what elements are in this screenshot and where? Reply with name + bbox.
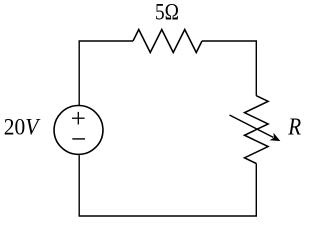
wire from resistor 5ohm to top-right corner down to rheostat R: [202, 41, 256, 96]
wire from bottom of rheostat R to bottom-right corner, bottom-left corner and up to source V1: [79, 155, 256, 216]
svg-text:5Ω: 5Ω: [155, 0, 179, 26]
wire from top of source V1 up to top-left corner and right to resistor 5ohm: [79, 41, 133, 105]
plus sign of source V1: [72, 112, 85, 125]
variable resistor R zigzag: [245, 96, 269, 164]
arrow across rheostat R: [230, 115, 281, 141]
voltage source V1 circle: [54, 106, 103, 155]
svg-text:R: R: [287, 114, 301, 140]
svg-text:20V: 20V: [4, 115, 41, 141]
minus sign of source V1: [72, 138, 85, 140]
resistor 5ohm zigzag: [133, 30, 202, 53]
